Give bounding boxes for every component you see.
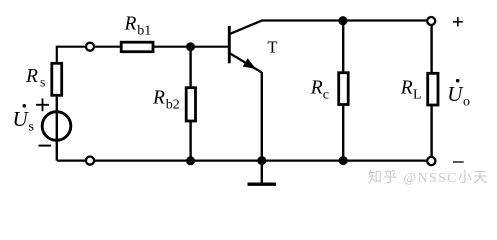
transistor emitter diagonal	[229, 53, 261, 73]
source Us circle	[42, 112, 71, 141]
svg-text:R: R	[124, 14, 137, 35]
svg-text:T: T	[267, 37, 277, 56]
transistor T base bar	[228, 26, 231, 63]
junction dot Rc bottom	[339, 156, 348, 165]
output terminal top circle	[427, 17, 435, 25]
svg-text:b1: b1	[137, 24, 151, 39]
wire: RL branch upper	[430, 25, 432, 72]
wire: bottom rail main segment	[94, 160, 426, 162]
resistor Rb1 box	[121, 42, 153, 52]
minus sign source	[39, 145, 52, 147]
wire: top-left corner	[57, 47, 86, 62]
svg-text:s: s	[40, 75, 45, 90]
svg-text:知乎 @NSSC小天: 知乎 @NSSC小天	[368, 169, 488, 186]
svg-text:R: R	[400, 77, 413, 98]
ground bar	[248, 183, 277, 186]
dot of Us	[23, 104, 27, 108]
wire: emitter vertical to ground	[261, 72, 263, 183]
wire: input circle to Rb1	[94, 46, 121, 48]
plus sign source	[36, 104, 49, 106]
output terminal bottom circle	[427, 157, 435, 165]
input terminal bottom circle	[86, 157, 94, 165]
wire: Rc to bottom rail	[342, 105, 344, 160]
resistor Rs box	[52, 63, 62, 95]
junction dot base node	[186, 42, 195, 51]
svg-text:R: R	[310, 78, 323, 99]
svg-text:U: U	[13, 107, 30, 131]
svg-text:c: c	[323, 87, 329, 102]
resistor Rb2 box	[186, 88, 195, 121]
wire: through source down to bottom rail	[56, 111, 58, 161]
transistor collector diagonal	[229, 21, 262, 35]
wire: Rb1 to transistor base	[154, 46, 228, 48]
svg-text:R: R	[25, 66, 38, 87]
junction dot Rc top	[338, 16, 347, 25]
transistor emitter arrow	[243, 58, 257, 69]
svg-text:b2: b2	[166, 98, 180, 113]
wire: Rb2 branch upper	[189, 47, 191, 87]
wire: Rb2 to bottom rail	[189, 122, 191, 161]
svg-text:L: L	[413, 88, 422, 103]
input terminal top circle	[86, 43, 94, 51]
svg-text:U: U	[447, 82, 464, 106]
wire: top collector rail	[261, 19, 426, 21]
dot of Uo	[456, 79, 460, 83]
svg-text:s: s	[29, 120, 34, 135]
resistor RL box	[428, 73, 438, 105]
wire: bottom rail left segment	[57, 160, 86, 162]
wire: Rc branch top	[342, 21, 344, 72]
junction dot emitter bottom	[257, 156, 266, 165]
junction dot Rb2 bottom	[186, 156, 195, 165]
plus sign output	[453, 21, 463, 23]
resistor Rc box	[339, 73, 349, 105]
wire: Rs to source circle	[56, 97, 58, 111]
svg-text:R: R	[152, 88, 165, 109]
wire: RL to output bottom	[430, 106, 432, 157]
minus sign output	[453, 161, 464, 163]
svg-text:o: o	[463, 95, 470, 110]
